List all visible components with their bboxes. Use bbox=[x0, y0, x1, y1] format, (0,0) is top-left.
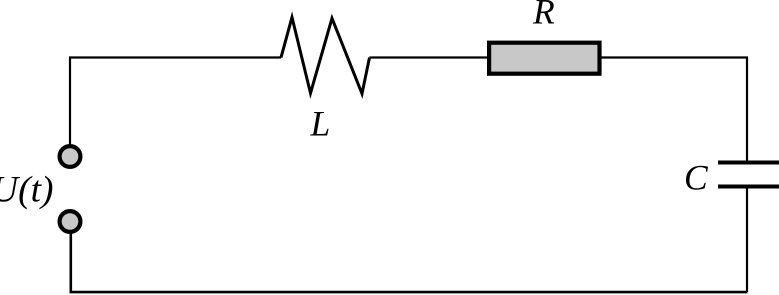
bottom wire from lower terminal down left side and across bottom bbox=[71, 234, 748, 293]
resistor R1 body bbox=[489, 43, 599, 74]
wire between inductor and resistor bbox=[370, 56, 488, 58]
svg-text:L: L bbox=[310, 103, 331, 143]
svg-text:C: C bbox=[684, 157, 708, 197]
svg-text:R: R bbox=[532, 0, 555, 31]
capacitor C1 bottom plate bbox=[718, 185, 779, 189]
svg-text:U(t): U(t) bbox=[0, 169, 53, 210]
wire from upper terminal up left side and across top to inductor bbox=[70, 58, 281, 146]
capacitor C1 top plate bbox=[718, 161, 779, 165]
source lower terminal node bbox=[60, 211, 81, 232]
source upper terminal node bbox=[60, 146, 81, 167]
wire from resistor across top-right corner down to capacitor top plate bbox=[601, 58, 747, 161]
wire from capacitor bottom plate down right side bbox=[746, 189, 748, 293]
inductor L1 zigzag bbox=[281, 17, 370, 93]
